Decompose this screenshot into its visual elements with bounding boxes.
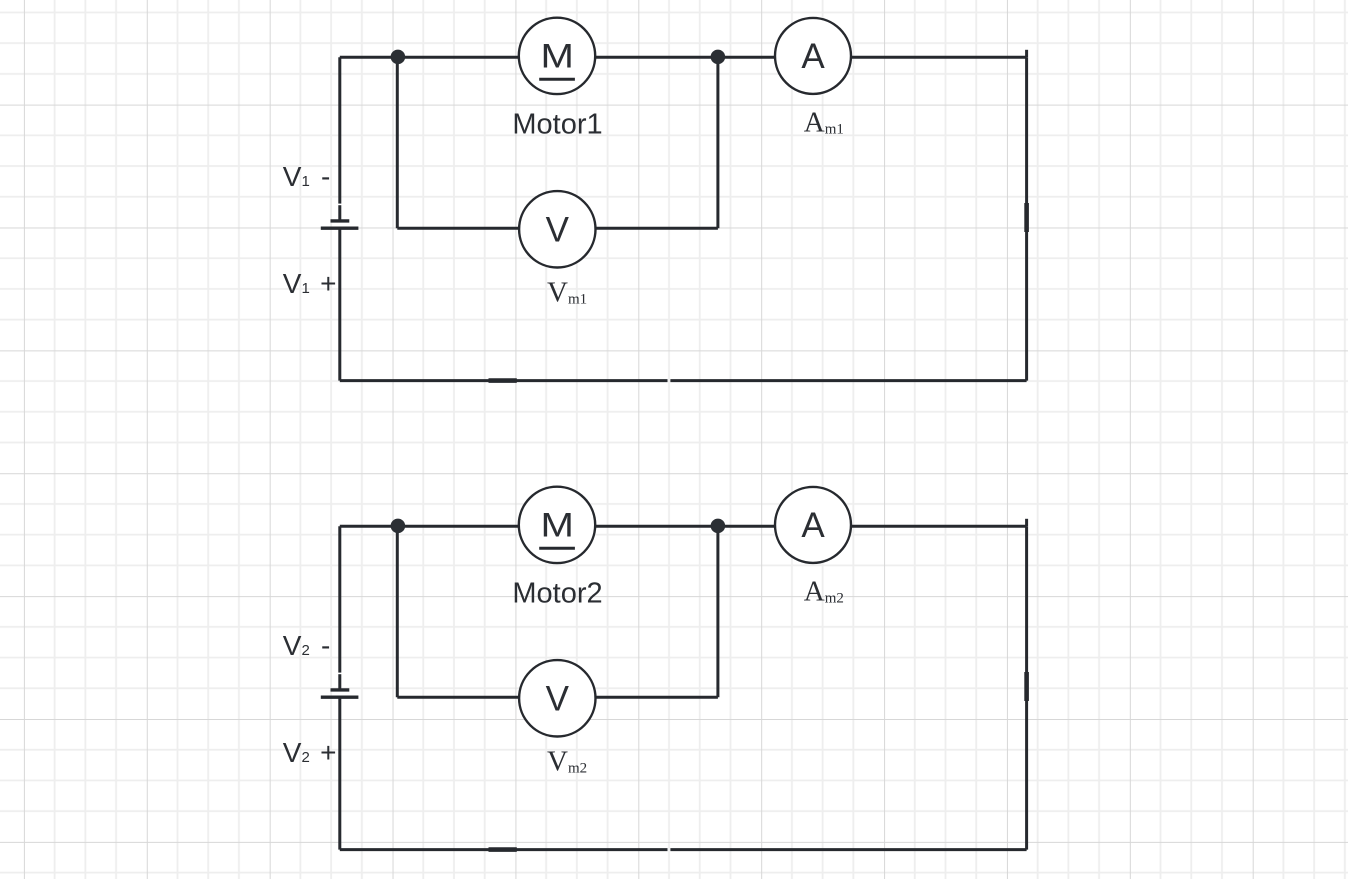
junction node dot right xyxy=(711,50,726,65)
wire bottom 2 (left part) xyxy=(340,848,668,851)
wire left lower (from battery) xyxy=(338,228,341,380)
motor M1 circle xyxy=(519,18,595,94)
wire right corner overshoot tick 2 xyxy=(1025,519,1028,526)
wire voltmeter branch left vertical 2 xyxy=(396,526,399,697)
wire voltmeter branch horizontal 2 xyxy=(397,696,718,699)
voltmeter V1 circle xyxy=(519,191,595,267)
battery V2 positive plate (long) xyxy=(321,696,359,699)
wire right overlap segment 2 xyxy=(1024,672,1029,701)
battery V1 negative plate (short) xyxy=(331,219,350,222)
wire bottom overlap segment 2 xyxy=(489,847,517,852)
svg-text:V: V xyxy=(546,679,570,718)
junction node dot right 2 xyxy=(711,519,726,534)
wire right 2 xyxy=(1025,526,1028,849)
svg-text:A: A xyxy=(801,506,825,545)
wire bottom 2 (right part) xyxy=(670,848,1026,851)
motor M2 circle xyxy=(519,487,595,563)
wire bottom overlap segment xyxy=(489,378,517,383)
motor M2 underline xyxy=(539,547,575,550)
wire bottom (right part) xyxy=(670,379,1026,382)
voltmeter V2 circle xyxy=(519,660,595,736)
svg-text:M: M xyxy=(540,505,573,543)
wire left lower 2 (from battery) xyxy=(338,697,341,849)
svg-text:V: V xyxy=(546,210,570,249)
wire voltmeter branch horizontal xyxy=(397,227,718,230)
wire bottom (left part) xyxy=(340,379,668,382)
wire right overlap segment xyxy=(1024,203,1029,232)
ammeter A1 circle xyxy=(775,18,851,94)
wire top (node battery- to ammeter right) xyxy=(340,56,1027,59)
svg-text:M: M xyxy=(540,36,573,74)
wire left upper (to battery) xyxy=(338,57,341,221)
wire voltmeter branch left vertical xyxy=(396,57,399,228)
svg-text:A: A xyxy=(801,37,825,76)
wire voltmeter branch right vertical xyxy=(716,57,719,228)
wire left upper 2 (to battery) xyxy=(338,526,341,690)
motor M1 underline xyxy=(539,78,575,81)
wire right xyxy=(1025,57,1028,380)
junction node dot left xyxy=(391,50,406,65)
junction node dot left 2 xyxy=(391,519,406,534)
wire left join notch xyxy=(338,203,342,205)
battery V1 positive plate (long) xyxy=(321,226,359,229)
wire left join notch 2 xyxy=(338,672,342,674)
wire right corner overshoot tick xyxy=(1025,50,1028,57)
wire voltmeter branch right vertical 2 xyxy=(716,526,719,697)
ammeter A2 circle xyxy=(775,487,851,563)
battery V2 negative plate (short) xyxy=(331,688,350,691)
wire top 2 xyxy=(340,525,1027,528)
svg-text:Motor1: Motor1 xyxy=(512,109,602,141)
svg-text:Motor2: Motor2 xyxy=(512,578,602,610)
